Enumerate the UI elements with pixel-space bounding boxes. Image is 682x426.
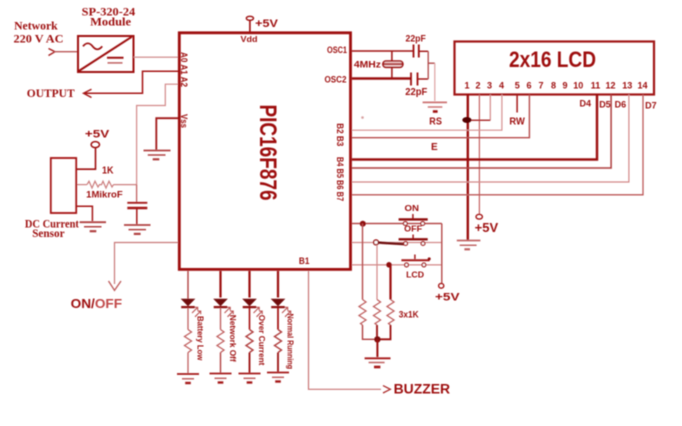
svg-text:B2 B3: B2 B3: [335, 123, 345, 146]
wire: 22pF caps junction to ground: [428, 51, 435, 101]
PIC microcontroller U1 box: [179, 33, 350, 270]
LCD display module box: [455, 42, 655, 95]
svg-text:D6: D6: [615, 99, 627, 109]
svg-text:A0 A1 A2: A0 A1 A2: [178, 52, 189, 87]
svg-text:OFF: OFF: [404, 224, 422, 234]
LED D4: [271, 299, 286, 307]
wire: OSC1 to crystal and 22pF: [352, 50, 414, 52]
svg-text:22pF: 22pF: [406, 34, 426, 45]
ground: LED1: [177, 373, 199, 375]
svg-text:3x1K: 3x1K: [399, 310, 419, 320]
+5V supply terminal at LCD pin2: [475, 214, 499, 235]
wire: PIC to LED3: [248, 271, 250, 298]
wire: LED4 to resistor R5: [277, 308, 279, 330]
push button LCD: [401, 255, 430, 280]
svg-text:+5V: +5V: [85, 129, 110, 141]
svg-text:D4: D4: [580, 98, 592, 108]
svg-text:2x16 LCD: 2x16 LCD: [509, 47, 596, 72]
wire: sensor lower output to ground: [76, 206, 92, 221]
stub RW: LCD pin5: [516, 95, 518, 113]
svg-text:5: 5: [515, 80, 520, 90]
wire: junction to ground: [376, 339, 378, 357]
svg-text:1K: 1K: [102, 166, 114, 177]
svg-text:B1: B1: [299, 256, 310, 266]
capacitor 1MikroF: [127, 185, 147, 224]
wire D7: PIC B7 to LCD pin14: [352, 95, 643, 195]
wire: PIC to LED4: [277, 271, 279, 298]
label: Network 220 V AC: [14, 19, 64, 46]
LED D1: [181, 299, 196, 307]
svg-text:BUZZER: BUZZER: [394, 382, 451, 397]
LED branch 1: Battery Low: [177, 271, 206, 383]
arrowhead: buzzer: [383, 386, 390, 393]
ground: sensor: [80, 222, 106, 231]
capacitor 22pF top: [414, 45, 429, 58]
svg-text:4MHz: 4MHz: [354, 60, 381, 71]
junction node on ON row: [360, 221, 366, 227]
crystal X1 4MHz: [383, 51, 403, 79]
wire: ON row to pull resistor 1: [362, 224, 364, 300]
ground: LED3: [239, 373, 261, 375]
ground: 1MikroF capacitor: [124, 225, 151, 234]
closed lever of OFF button: [378, 243, 407, 245]
svg-text:ON/OFF: ON/OFF: [71, 297, 123, 311]
LED D2: [213, 299, 228, 307]
svg-text:22pF: 22pF: [405, 87, 427, 98]
svg-text:10: 10: [573, 80, 583, 90]
svg-text:Battery Low: Battery Low: [196, 316, 206, 361]
wire D5: PIC B5 to LCD pin12: [352, 95, 611, 169]
svg-text:11: 11: [591, 80, 601, 90]
resistor R2: [185, 330, 192, 353]
wire E: PIC B3 to LCD pin6: [352, 95, 529, 138]
wire: button rows common to +5V: [441, 224, 443, 284]
ground: crystal capacitors: [423, 102, 447, 111]
power module PS1 SP-320-24: [78, 36, 134, 72]
LED branch 4: Normal Running: [267, 271, 296, 382]
svg-text:D5: D5: [599, 99, 611, 109]
wire: OSC2 to crystal and 22pF (thick): [352, 77, 411, 80]
svg-text:Over Current: Over Current: [257, 315, 267, 366]
svg-text:Sensor: Sensor: [32, 228, 64, 240]
push button OFF: [399, 224, 428, 246]
svg-text:14: 14: [637, 80, 647, 90]
wire RS: PIC B2 to LCD pin4: [352, 95, 502, 131]
svg-text:LCD: LCD: [406, 270, 424, 280]
LED branch 3: Over Current: [239, 271, 268, 383]
wire D4: PIC B4 to LCD pin11 (thick): [352, 95, 597, 160]
wire: resistor R4 to ground: [249, 353, 251, 373]
svg-text:Normal Running: Normal Running: [286, 314, 296, 370]
junction node on pin1 line: [462, 117, 471, 123]
+5V supply terminal at sensor: [76, 129, 110, 170]
wire: PIC to LED1: [187, 271, 189, 299]
resistor R5: [275, 330, 282, 353]
svg-text:Vss: Vss: [178, 114, 189, 128]
stray mark: [361, 116, 364, 119]
svg-text:PIC16F876: PIC16F876: [254, 105, 280, 201]
capacitor 22pF bottom: [411, 73, 428, 86]
wire: PIC B1 to buzzer: [309, 271, 382, 389]
resistor R4: [246, 330, 253, 353]
wire: OFF pole to pull resistor 2: [376, 245, 378, 300]
svg-text:4: 4: [499, 80, 504, 90]
resistor bank 3x1K: [359, 300, 394, 326]
wire: LCD pin1 to ground (thick): [467, 95, 469, 241]
svg-text:+5V: +5V: [475, 221, 499, 235]
LED D3: [242, 299, 257, 307]
+5V supply terminal at Vdd: [246, 16, 278, 32]
svg-text:OSC1: OSC1: [327, 45, 348, 56]
svg-text:+5V: +5V: [435, 291, 460, 303]
svg-text:D7: D7: [645, 101, 657, 111]
wire: Vss to ground: [156, 118, 178, 149]
wire: ON button row from PIC: [352, 223, 442, 225]
wire: AC input with arrowhead: [49, 49, 78, 56]
ground: Vss: [144, 151, 171, 160]
junction node at resistor bank common: [374, 336, 380, 342]
ground: resistor bank: [365, 358, 391, 367]
LED branch 2: Network Off: [210, 271, 239, 383]
resistor R3: [217, 330, 224, 353]
svg-text:RW: RW: [509, 117, 525, 128]
svg-text:Module: Module: [90, 16, 131, 28]
wire: PIC pin A2 to sensor RC junction: [137, 84, 178, 184]
svg-text:E: E: [431, 142, 438, 153]
wires: resistor bank to common junction: [363, 325, 391, 339]
svg-text:13: 13: [622, 80, 632, 90]
svg-text:RS: RS: [429, 117, 442, 128]
svg-text:Vdd: Vdd: [241, 34, 258, 44]
wire: OFF button row from PIC: [352, 242, 442, 244]
+5V supply terminal at buttons: [435, 283, 460, 303]
switch pole terminal on OFF row: [374, 240, 379, 245]
svg-text:OUTPUT: OUTPUT: [27, 88, 75, 100]
push button ON: [399, 203, 428, 225]
label: DC Current Sensor: [25, 218, 79, 240]
svg-text:+5V: +5V: [255, 18, 278, 30]
ground: LCD pin1: [457, 241, 481, 250]
svg-text:6: 6: [526, 80, 531, 90]
svg-text:OSC2: OSC2: [325, 74, 347, 85]
svg-text:8: 8: [551, 80, 556, 90]
wire: LCD pin3 contrast tied to pin1: [468, 95, 491, 121]
wire: LED3 to resistor R4: [249, 308, 251, 330]
svg-text:7: 7: [538, 80, 543, 90]
wire: resistor R3 to ground: [220, 353, 222, 373]
wire: module output to PIC pin A0: [134, 56, 179, 58]
wire: resistor R2 to ground: [187, 353, 189, 374]
LCD pin numbers 1-14: [464, 80, 647, 90]
wire: LED2 to resistor R3: [220, 308, 222, 330]
wire D6: PIC B6 to LCD pin13: [352, 95, 629, 183]
svg-text:1MikroF: 1MikroF: [86, 190, 123, 200]
svg-text:1: 1: [464, 80, 469, 90]
svg-text:220 V AC: 220 V AC: [14, 31, 64, 45]
svg-text:3: 3: [487, 80, 492, 90]
svg-text:Network Off: Network Off: [228, 315, 238, 362]
svg-text:2: 2: [475, 80, 480, 90]
wire: LCD pin2 to +5V: [478, 95, 480, 215]
wire: LED1 to resistor R2: [187, 308, 189, 330]
wire: LCD button row from PIC: [352, 264, 442, 266]
resistor 1K (sensor output): [76, 181, 136, 188]
ground: LED2: [210, 373, 232, 375]
svg-text:12: 12: [605, 80, 615, 90]
junction node on LCD row: [386, 262, 392, 268]
ground: LED4: [267, 372, 289, 374]
wire: resistor R5 to ground: [277, 353, 279, 372]
svg-text:ON: ON: [405, 203, 420, 213]
wire: PIC to ON/OFF arrow: [109, 243, 179, 291]
wire: PIC to LED2: [219, 271, 221, 298]
label: SP-320-24 Module: [82, 7, 136, 29]
svg-text:9: 9: [562, 80, 567, 90]
wire: PIC pin A1 to OUTPUT arrow: [84, 71, 179, 97]
svg-text:B4 B5 B6 B7: B4 B5 B6 B7: [335, 157, 345, 201]
DC current sensor box: [51, 158, 76, 213]
wire: LCD row to pull resistor 3: [389, 265, 391, 300]
